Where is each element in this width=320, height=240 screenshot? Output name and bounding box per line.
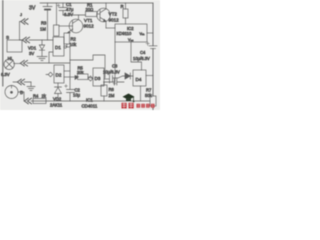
gate D1	[53, 37, 64, 56]
capacitor C2 10u	[67, 79, 75, 101]
svg-text:9012: 9012	[109, 18, 120, 23]
gate D3	[93, 68, 104, 86]
wire node C1 to R1	[63, 14, 86, 16]
capacitor C1	[59, 3, 67, 15]
gate D2	[54, 65, 64, 83]
wire S line to D1	[29, 39, 53, 41]
svg-text:R: R	[121, 4, 124, 9]
connector J chevron top	[21, 19, 28, 25]
wire D1 out down	[69, 47, 71, 79]
svg-text:10μ/6.3V: 10μ/6.3V	[103, 70, 120, 75]
svg-text:9012: 9012	[84, 24, 95, 29]
wire IC2 left-bottom down	[114, 42, 116, 82]
svg-text:KD9110: KD9110	[117, 31, 132, 36]
svg-text:10μ: 10μ	[73, 93, 81, 98]
svg-text:20Ω: 20Ω	[86, 7, 94, 12]
svg-text:50k: 50k	[145, 93, 153, 98]
wire bottom rail	[31, 100, 150, 102]
wire D4 bottom stub	[140, 86, 142, 101]
resistor R3 (left of D1 top)	[54, 25, 60, 36]
svg-text:D1: D1	[55, 45, 61, 50]
gate D4	[133, 70, 146, 86]
resistor R6 2M	[101, 85, 107, 96]
battery GB 3V	[43, 3, 52, 40]
svg-text:VT1: VT1	[84, 18, 93, 23]
wire D3 out	[104, 78, 109, 80]
svg-text:C3: C3	[112, 64, 118, 69]
wire right vertical rail	[152, 3, 154, 110]
wire D4 out	[146, 75, 153, 77]
wire D1 lower input	[49, 52, 53, 63]
svg-text:2M: 2M	[109, 93, 115, 98]
capacitor C4	[149, 46, 157, 49]
svg-text:2AK11: 2AK11	[50, 103, 63, 108]
svg-text:J: J	[20, 12, 22, 17]
svg-text:HL: HL	[8, 56, 14, 61]
wire IC2 bottom stub	[131, 42, 142, 70]
resistor R5 with diode	[78, 74, 89, 80]
input diamond D3	[88, 76, 93, 81]
svg-text:VT2: VT2	[109, 12, 118, 17]
capacitor C3 10u/6.3V	[110, 75, 126, 84]
wire top supply rail	[40, 2, 153, 4]
svg-text:CD4011: CD4011	[82, 104, 98, 109]
wire D2 to R5	[64, 76, 75, 78]
connector chevron 2	[22, 37, 29, 43]
ground under VD1	[37, 57, 47, 61]
zener VD1 3V	[41, 40, 43, 45]
svg-text:D3: D3	[95, 76, 101, 81]
watermark red text	[122, 103, 155, 109]
svg-text:S: S	[6, 35, 9, 40]
microphone B	[5, 86, 18, 99]
ground mid-low	[27, 82, 35, 91]
resistor R7 50k	[150, 96, 156, 106]
svg-text:10μ/6.3V: 10μ/6.3V	[133, 56, 150, 61]
svg-text:D4: D4	[136, 77, 142, 82]
resistor R4 2k	[33, 99, 46, 104]
svg-text:R2: R2	[71, 37, 77, 42]
svg-text:VD1: VD1	[28, 46, 37, 51]
transistor VT1 9012	[69, 19, 83, 33]
diode VD3	[125, 73, 133, 79]
connector chevron lamp	[20, 60, 27, 66]
svg-text:B: B	[20, 90, 23, 95]
svg-text:3V: 3V	[29, 6, 36, 12]
switch S rectangle	[7, 40, 22, 52]
wire lamp to center	[27, 62, 70, 64]
watermark cap icon	[123, 94, 135, 103]
svg-text:R3: R3	[41, 21, 47, 26]
wire IC2 out right	[147, 32, 153, 34]
connector chevron mid-low	[17, 79, 24, 85]
resistor R2 10k	[64, 33, 70, 44]
svg-text:D2: D2	[56, 73, 62, 78]
capacitor C5 ceramic	[104, 79, 125, 85]
diode VD2 2AK11	[55, 83, 62, 101]
svg-text:10k: 10k	[70, 42, 78, 47]
svg-text:R6: R6	[109, 87, 115, 92]
svg-text:R7: R7	[146, 88, 152, 93]
lamp HL	[4, 59, 14, 69]
svg-text:1M: 1M	[40, 27, 46, 32]
input diamond D2	[46, 72, 53, 77]
wire D1 output	[64, 46, 66, 48]
wire R1 to VT2 base	[97, 13, 100, 15]
connector chevron B	[24, 98, 31, 104]
wire R5 to D3	[88, 77, 93, 79]
svg-text:Vₛₛ: Vₛₛ	[128, 38, 134, 42]
svg-text:20k: 20k	[77, 70, 83, 75]
svg-text:3V: 3V	[29, 51, 34, 56]
resistor R top-right	[123, 9, 128, 18]
svg-text:R4: R4	[33, 94, 39, 99]
svg-text:IC1: IC1	[86, 98, 93, 103]
wire D2 out	[64, 70, 70, 72]
transistor VT2 9012	[97, 8, 111, 22]
svg-text:C4: C4	[140, 50, 146, 55]
wire VT2 emitter to IC2	[106, 27, 115, 29]
wire mid horizontal	[70, 55, 105, 78]
svg-text:Vₕₕ: Vₕₕ	[140, 32, 146, 36]
wire left vertical rail	[2, 0, 4, 86]
svg-text:VD2: VD2	[53, 97, 62, 102]
svg-text:6.3V: 6.3V	[1, 72, 10, 77]
IC2 box KD9110	[115, 24, 147, 42]
wire B to rail	[18, 92, 24, 101]
resistor R1 20 ohm	[86, 12, 98, 17]
